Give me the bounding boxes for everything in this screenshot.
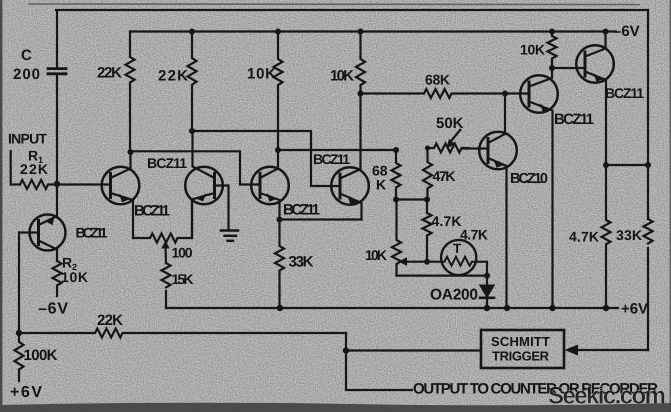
svg-text:BCZ11: BCZ11 <box>134 203 170 220</box>
transistor Q3 BCZ11 circle <box>251 167 289 205</box>
wire: 68K bottom to 47K bottom <box>396 198 427 200</box>
svg-text:33K: 33K <box>289 254 314 271</box>
svg-text:BCZ11: BCZ11 <box>605 85 644 101</box>
wire: schmitt right arrow feed <box>578 349 648 351</box>
resistor 10K column4 <box>356 32 365 94</box>
wire: Q2 base to ground <box>215 186 229 230</box>
arrow: TR2 emitter <box>594 73 604 82</box>
svg-text:100K: 100K <box>24 347 58 364</box>
wire: input terminal stub <box>11 151 20 185</box>
transistor Q2 BCZ11 circle (mirrored) <box>185 167 223 205</box>
resistor 10K column3 <box>274 32 283 151</box>
transistor Tin emitter (up) <box>39 185 58 226</box>
arrows <box>45 73 603 355</box>
svg-text:OA200: OA200 <box>430 287 478 304</box>
resistor 100K <box>15 333 24 381</box>
resistor 22K column1 <box>126 32 135 153</box>
arrow: BCZ10 emitter <box>494 159 504 168</box>
resistor 100 potentiometer horizontal <box>133 234 191 243</box>
wire: 100 pot wiper to 15K <box>164 245 167 263</box>
wire: 10K col5 node to TR2 base <box>552 67 585 69</box>
svg-text:22K: 22K <box>97 312 123 329</box>
svg-text:+6V: +6V <box>621 301 648 318</box>
svg-text:50K: 50K <box>436 115 464 132</box>
wire: -6V bus y=31.5 <box>130 30 616 32</box>
scan artifact: left edge <box>0 0 2 405</box>
transistor Q1 BCZ11 circle <box>102 167 140 205</box>
svg-text:22K: 22K <box>20 161 48 177</box>
svg-text:–6V: –6V <box>613 23 640 40</box>
arrow: 50K pot wiper line <box>451 129 461 141</box>
svg-text:BCZ11: BCZ11 <box>313 151 350 167</box>
svg-text:10K: 10K <box>330 68 354 85</box>
wire: right edge below 33K to corner <box>647 248 649 350</box>
ground symbol <box>221 231 238 241</box>
wire: into schmitt trigger left <box>346 349 480 351</box>
wire: 15K bottom corner to rail <box>165 291 167 308</box>
transistor Tin collector (down) <box>39 241 58 262</box>
svg-text:100: 100 <box>172 245 193 261</box>
resistor 50K horizontal <box>428 144 469 153</box>
diode OA200 <box>480 286 494 298</box>
wire: diode column <box>486 276 488 286</box>
wire: cross-coupling Q1 collector to Q3 base <box>131 151 261 184</box>
transistor TR2 base bar <box>584 52 587 76</box>
transistor Q1 collector <box>111 152 131 178</box>
wire: diode to +6V rail <box>486 299 488 308</box>
arrow: Q2 emitter <box>197 193 207 201</box>
resistor R1 22K horizontal <box>20 180 57 189</box>
transistor Q2 collector <box>193 131 215 178</box>
svg-text:INPUT: INPUT <box>8 131 47 147</box>
wire: 10K pot wiper to thermistor <box>404 261 442 263</box>
wire: input node to Q1 base <box>57 183 111 185</box>
wire: pot right riser to Q2 emitter <box>191 200 193 239</box>
resistor 47K <box>423 148 432 200</box>
svg-text:+6V: +6V <box>10 384 42 401</box>
arrow: Tin emitter (up) <box>45 217 55 226</box>
arrow: Q3 emitter <box>267 193 277 202</box>
transistor TR2 emitter <box>585 72 606 166</box>
transistor TR1 collector <box>529 68 552 87</box>
transistor Q3 base bar <box>259 174 262 198</box>
transistor TR2 BCZ11 circle <box>576 45 614 83</box>
arrow: TR1 emitter <box>540 104 550 113</box>
wire: left feedback drop <box>18 233 20 334</box>
arrow: Q1 emitter <box>119 194 129 203</box>
resistor 15K <box>162 263 171 287</box>
svg-text:BCZ10: BCZ10 <box>510 171 548 187</box>
transistor Tin base bar <box>37 221 40 245</box>
wire: left vertical from top rail to capacitor <box>56 10 58 67</box>
transistor BCZ10 circle <box>479 132 517 170</box>
svg-text:10K: 10K <box>61 269 88 285</box>
svg-text:SCHMITT: SCHMITT <box>491 334 550 349</box>
resistor 10K column5 top right <box>548 32 557 69</box>
svg-text:4.7K: 4.7K <box>432 213 462 229</box>
svg-text:33K: 33K <box>616 227 642 243</box>
capacitor C 200 <box>48 69 66 74</box>
transistor Q3 emitter <box>260 193 280 220</box>
transistor Q1 base bar <box>109 174 112 198</box>
wire: Tin base to left feedback line <box>19 231 39 233</box>
svg-text:TRIGGER: TRIGGER <box>492 349 550 364</box>
resistor R2 10K <box>53 261 62 296</box>
resistor 33K right column <box>644 219 653 244</box>
svg-text:4.7K: 4.7K <box>460 227 488 243</box>
wire: Q3/Q4 emitter tie <box>280 218 362 220</box>
svg-text:4.7K: 4.7K <box>569 229 599 245</box>
scan artifact: right edge <box>670 0 671 412</box>
resistor 68K vertical <box>392 150 401 200</box>
wire: right edge drop from top rail <box>647 10 649 219</box>
resistor 4.7K middle <box>423 200 432 262</box>
wire: +6V rail <box>166 307 618 309</box>
scan artifact: top edge line <box>28 3 640 6</box>
transistor Q1 emitter <box>111 193 134 238</box>
svg-text:C: C <box>21 47 32 64</box>
thermistor internal zigzag <box>442 257 477 266</box>
resistor 10K potentiometer left <box>392 200 401 276</box>
wire: Q3 collector node to 68K vertical <box>278 149 396 151</box>
resistor 68K horizontal <box>361 89 506 98</box>
wire: TR2 emitter node to right edge <box>606 164 648 166</box>
transistor Q4 base bar <box>339 174 342 198</box>
svg-text:10K: 10K <box>247 66 276 83</box>
transistor Q2 base bar <box>213 174 216 198</box>
resistor 22K column2 <box>188 32 197 132</box>
svg-text:BCZ11: BCZ11 <box>283 202 320 219</box>
svg-text:200: 200 <box>13 66 40 83</box>
schmitt trigger box <box>481 330 564 368</box>
transistor Q4 emitter <box>340 194 362 220</box>
transistor Q2 emitter <box>192 193 215 238</box>
svg-text:22K: 22K <box>97 65 122 82</box>
svg-text:T: T <box>453 241 462 256</box>
transistor BCZ10 emitter <box>488 158 507 308</box>
svg-text:10K: 10K <box>365 247 387 263</box>
transistor Q4 collector <box>340 94 361 179</box>
resistor 22K feedback horizontal <box>19 329 346 338</box>
wire: 68K right to BCZ11 TR1 base <box>505 92 529 94</box>
wire: thermistor right lead down <box>476 262 487 276</box>
wire: feedback corner down to output line <box>346 333 412 390</box>
resistor 33K under Q3 <box>275 220 284 309</box>
wire: 50K to BCZ10 base <box>463 147 488 149</box>
transistor TR1 base bar <box>528 82 531 106</box>
transistor TR1 emitter <box>529 102 553 309</box>
svg-text:15K: 15K <box>172 271 194 287</box>
arrow: 10K pot wiper <box>399 257 408 266</box>
transistor Q4 BCZ11 circle <box>331 167 369 205</box>
arrow: 100 pot wiper <box>161 241 169 249</box>
scan artifact: bottom band <box>0 403 671 412</box>
thermistor circle <box>441 240 476 275</box>
svg-text:68K: 68K <box>425 72 450 88</box>
transistor BCZ10 collector <box>488 94 505 144</box>
svg-text:BCZ11: BCZ11 <box>554 111 594 128</box>
wire: pot bottom to diode column <box>397 275 488 277</box>
svg-text:47K: 47K <box>433 168 456 184</box>
svg-text:BCZ11: BCZ11 <box>147 155 187 171</box>
resistor 4.7K right column <box>602 165 611 308</box>
transistor TR2 collector <box>585 32 606 57</box>
arrow: Q4 emitter <box>348 196 358 205</box>
svg-text:–6V: –6V <box>38 301 68 318</box>
transistor TR1 BCZ11 circle <box>520 75 558 113</box>
transistor BCZ10 base bar <box>487 139 490 163</box>
arrow: schmitt trigger input <box>565 345 579 356</box>
wire: top supply rail y=10 <box>56 9 648 11</box>
wire: cross-coupling Q2 collector to Q4 base <box>192 131 340 186</box>
svg-text:BCZ11: BCZ11 <box>76 225 108 241</box>
transistor Tin BCZ11 circle <box>30 215 66 251</box>
svg-text:22K: 22K <box>158 68 188 85</box>
transistor Q3 collector <box>260 150 278 178</box>
svg-text:10K: 10K <box>520 42 545 58</box>
svg-text:K: K <box>376 177 386 193</box>
wire: capacitor to input node <box>56 75 58 185</box>
